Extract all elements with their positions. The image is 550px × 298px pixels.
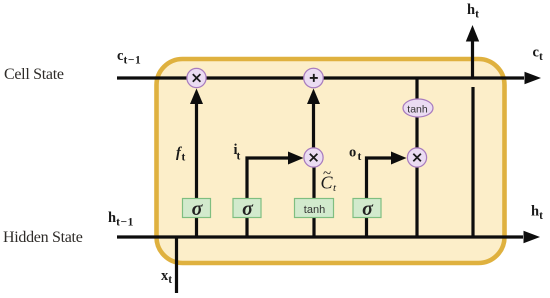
multiply circle (forget gate): [187, 68, 206, 87]
wire: cell line down to tanh ellipse: [415, 78, 418, 99]
svg-text:t: t: [237, 151, 241, 163]
svg-text:σ: σ: [242, 198, 254, 220]
multiply circle (output gate): [407, 148, 426, 167]
wire: x_t input vertical: [175, 237, 178, 293]
svg-text:Cell State: Cell State: [4, 66, 64, 83]
svg-text:t: t: [182, 152, 186, 164]
svg-text:σ: σ: [192, 198, 204, 220]
arrowhead into add: [307, 89, 320, 105]
svg-text:t: t: [358, 151, 362, 163]
arrowhead into multiply (output): [391, 152, 407, 165]
arrowhead h_t exit: [524, 231, 541, 243]
add circle: [304, 68, 324, 88]
tanh box (candidate gate): [295, 199, 334, 218]
wire: forget gate vertical f_t: [195, 103, 198, 237]
wire: input gate vertical + horizontal i_t: [247, 158, 290, 237]
LSTM cell body: [157, 59, 505, 263]
wire: hidden state line h_{t-1} to h_t: [117, 235, 523, 238]
arrowhead into multiply (forget): [190, 89, 203, 105]
wire: tanh ellipse to output multiply: [415, 117, 418, 148]
multiply circle (input gate): [304, 148, 323, 167]
arrowhead h_t top: [466, 25, 479, 42]
svg-text:Hidden State: Hidden State: [3, 229, 83, 246]
wire: output multiply down to hidden line: [415, 167, 418, 237]
svg-text:tanh: tanh: [304, 204, 325, 216]
wire: multiply to add vertical: [312, 103, 315, 148]
arrowhead into multiply (input): [288, 152, 304, 165]
svg-text:σ: σ: [362, 198, 374, 220]
arrowhead c_t exit: [525, 72, 542, 84]
sigma box (output gate): [353, 199, 381, 218]
wire: h_t up output stem: [471, 40, 474, 77]
wire: output gate vertical + horizontal o_t: [367, 158, 394, 237]
wire: h_t branch vertical (crosses cell line with gap): [471, 87, 474, 237]
wire: candidate gate vertical C~_t: [312, 167, 315, 237]
sigma box (forget gate): [183, 199, 211, 218]
wire: cell state line c_{t-1} to c_t: [117, 76, 524, 79]
sigma box (input gate): [233, 199, 261, 218]
svg-text:tanh: tanh: [407, 104, 428, 116]
svg-text:~: ~: [323, 166, 331, 182]
svg-text:o: o: [349, 145, 356, 161]
tanh ellipse: [403, 99, 433, 117]
